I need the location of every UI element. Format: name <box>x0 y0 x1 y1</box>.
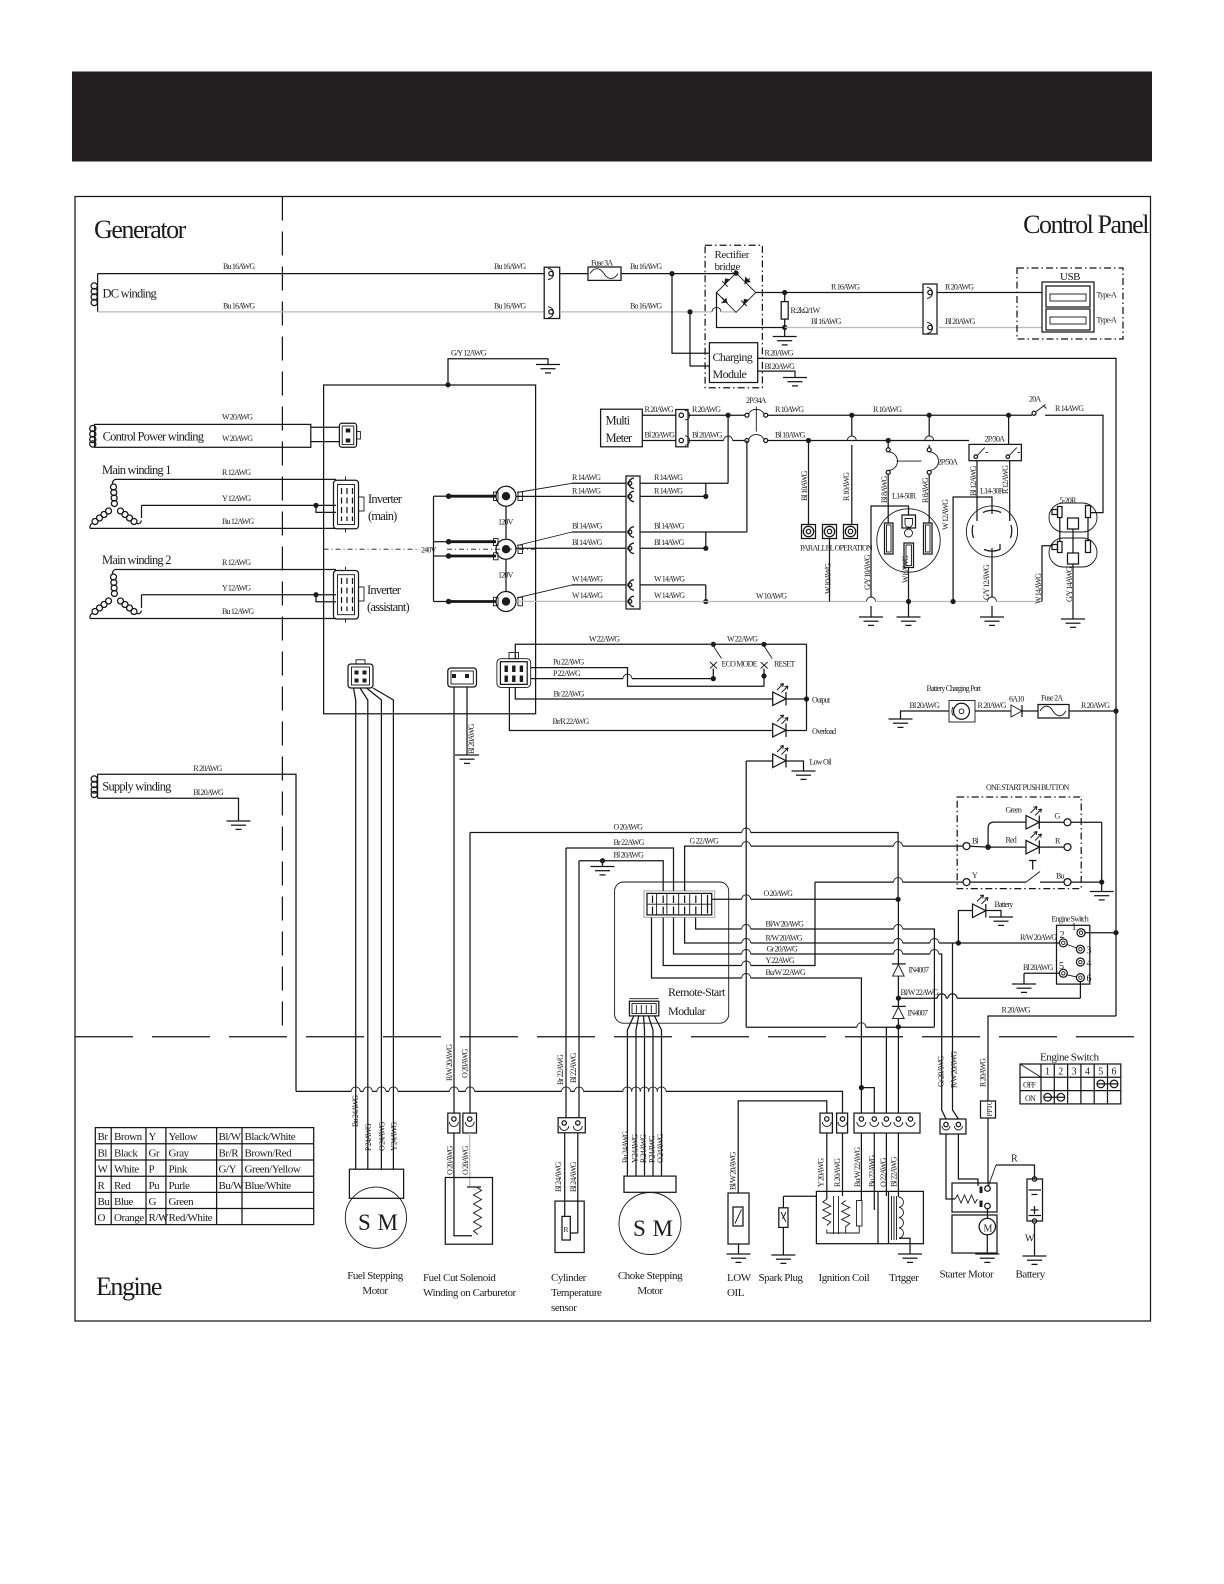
wire R/W 20AWG fuel cut <box>453 687 455 1113</box>
svg-text:2: 2 <box>1060 930 1065 941</box>
svg-text:Bu 16AWG: Bu 16AWG <box>223 302 255 311</box>
wire R 14AWG to S-20R <box>1045 415 1103 512</box>
bridge diamond with 4 diodes <box>717 271 756 313</box>
svg-text:Motor: Motor <box>362 1285 388 1297</box>
svg-text:G/Y 12AWG: G/Y 12AWG <box>982 564 991 600</box>
svg-text:Red: Red <box>1006 836 1017 845</box>
svg-text:Starter Motor: Starter Motor <box>940 1269 995 1281</box>
svg-text:R/W 20AWG: R/W 20AWG <box>445 1044 454 1081</box>
svg-text:Fuse 3A: Fuse 3A <box>591 259 613 268</box>
wire Bu/W 22AWG <box>652 917 875 1113</box>
svg-text:Purle: Purle <box>169 1180 191 1192</box>
wire Bl 22AWG temp sensor <box>578 861 580 1118</box>
wire R 10AWG bus <box>768 414 1032 416</box>
receptacle L14-30R <box>966 487 1017 558</box>
wires right of strip: W pair <box>640 584 706 586</box>
wire O 22AWG down <box>885 1027 887 1113</box>
terminal 120V lower <box>494 592 523 612</box>
svg-text:W 14AWG: W 14AWG <box>572 575 603 584</box>
svg-text:O 24AWG: O 24AWG <box>378 1121 387 1151</box>
svg-text:6: 6 <box>1112 1067 1117 1078</box>
wire R 12AWG to L14-30R <box>1009 461 1011 521</box>
svg-text:(main): (main) <box>368 509 397 523</box>
svg-text:Bl 20AWG: Bl 20AWG <box>692 431 723 440</box>
svg-text:W: W <box>98 1164 109 1176</box>
svg-text:O 20AWG: O 20AWG <box>446 1145 455 1175</box>
wire to charging module pin1 <box>672 274 709 354</box>
svg-text:S M: S M <box>633 1216 674 1241</box>
svg-text:W 10AWG: W 10AWG <box>824 563 833 594</box>
svg-text:L14-50R: L14-50R <box>892 492 917 501</box>
ground below resistor <box>773 328 797 345</box>
choke stepping motor <box>618 1131 683 1297</box>
svg-text:Engine Switch: Engine Switch <box>1040 1052 1100 1064</box>
diode 6A10 <box>975 695 1024 718</box>
terminal 240V middle <box>494 539 523 592</box>
svg-text:LOW: LOW <box>727 1272 752 1284</box>
svg-text:Type-A: Type-A <box>1097 316 1118 325</box>
svg-text:Bl 20AWG: Bl 20AWG <box>193 788 224 797</box>
240V dash-dot divider <box>324 548 420 550</box>
connector display 6-pin <box>497 653 531 688</box>
svg-text:Bu 22AWG: Bu 22AWG <box>868 1155 877 1187</box>
connector control power 2-pin plug <box>339 423 360 447</box>
switch ECO MODE <box>710 642 758 682</box>
wire pin1 to rail <box>1085 932 1116 934</box>
svg-text:Bl 8AWG: Bl 8AWG <box>880 476 889 503</box>
wire Bl 20AWG to USB <box>937 327 1042 329</box>
svg-text:5: 5 <box>1059 961 1064 972</box>
svg-text:Bl 22AWG: Bl 22AWG <box>890 1156 899 1187</box>
main winding 1 three-phase coil <box>90 479 142 528</box>
ground charging module <box>783 378 807 386</box>
svg-text:Bu 16AWG: Bu 16AWG <box>494 262 526 271</box>
svg-text:Y 22AWG: Y 22AWG <box>766 956 795 965</box>
svg-text:Gray: Gray <box>169 1147 190 1159</box>
svg-text:ECO MODE: ECO MODE <box>722 660 758 669</box>
svg-text:2P/30A: 2P/30A <box>985 435 1006 444</box>
wire low-oil vertical <box>745 761 747 1027</box>
wire Bl 20AWG from charging module to ground <box>758 371 795 377</box>
svg-text:Temperature: Temperature <box>551 1287 602 1299</box>
DC winding coil <box>91 274 157 312</box>
svg-text:RESET: RESET <box>774 660 795 669</box>
svg-text:Bu 16AWG: Bu 16AWG <box>223 262 255 271</box>
svg-text:Bu 12AWG: Bu 12AWG <box>222 607 254 616</box>
svg-text:Black/White: Black/White <box>245 1131 296 1143</box>
node resistor bottom <box>782 325 787 330</box>
svg-text:Red/White: Red/White <box>169 1212 213 1224</box>
node Y w2 split <box>313 592 318 597</box>
cylinder temperature sensor <box>551 1118 602 1314</box>
svg-text:IN4007: IN4007 <box>908 1009 928 1018</box>
wire R 20AWG meter out <box>642 414 676 416</box>
svg-text:Bl/W 20AWG: Bl/W 20AWG <box>729 1151 738 1190</box>
svg-text:R 20AWG: R 20AWG <box>945 283 974 292</box>
svg-text:W: W <box>1025 1234 1035 1245</box>
svg-text:G 22AWG: G 22AWG <box>690 837 720 846</box>
connector ignition 5-pin <box>854 1113 920 1133</box>
svg-text:Green: Green <box>169 1196 195 1208</box>
wire R 12AWG w1 <box>115 478 336 480</box>
svg-text:W 20AWG: W 20AWG <box>222 434 253 443</box>
svg-text:R 14AWG: R 14AWG <box>654 487 683 496</box>
svg-text:R 8AWG: R 8AWG <box>921 477 930 503</box>
svg-text:Bl 22AWG: Bl 22AWG <box>569 1052 578 1083</box>
svg-text:Gr: Gr <box>149 1147 160 1159</box>
wire Bl 20AWG with ground <box>579 851 663 891</box>
wire low-oil to Y pin <box>738 1101 827 1193</box>
svg-text:R 14AWG: R 14AWG <box>572 487 601 496</box>
terminal 120V upper <box>494 486 523 538</box>
wire Bu 16AWG top <box>98 273 545 275</box>
node Y w1 split <box>313 503 318 508</box>
wire W 12AWG L14-30R to bus <box>941 497 992 604</box>
svg-text:R 20AWG: R 20AWG <box>193 764 222 773</box>
wire bridge plus output (right vertex) <box>756 292 923 294</box>
wire R 20AWG to rail <box>1069 710 1116 712</box>
svg-text:Bl 20AWG: Bl 20AWG <box>614 851 645 860</box>
svg-text:Br 22AWG: Br 22AWG <box>554 690 585 699</box>
bracket thin link <box>434 496 449 601</box>
svg-text:Main winding 2: Main winding 2 <box>102 553 171 567</box>
svg-text:Bu 24AWG: Bu 24AWG <box>351 1095 360 1127</box>
wire Y 12AWG w1 <box>142 504 337 506</box>
svg-text:W 14AWG: W 14AWG <box>1034 573 1043 604</box>
svg-text:Black: Black <box>114 1147 138 1159</box>
svg-text:Type-A: Type-A <box>1097 291 1118 300</box>
connector DC winding 2-pin <box>544 267 560 318</box>
wire R 20AWG from charging module to right rail <box>758 358 1116 711</box>
svg-text:Output: Output <box>812 696 831 705</box>
svg-text:Control Power winding: Control Power winding <box>103 430 205 444</box>
parallel operation terminals <box>800 525 873 553</box>
LED Output <box>773 644 831 730</box>
svg-text:G/Y 12AWG: G/Y 12AWG <box>451 349 487 358</box>
svg-text:P 24AWG: P 24AWG <box>364 1123 373 1151</box>
wire W 8AWG L14-50R neutral to bus <box>897 555 921 625</box>
svg-text:Bu: Bu <box>98 1196 111 1208</box>
svg-text:R 20AWG: R 20AWG <box>692 405 721 414</box>
wire Bl 16AWG lower output <box>785 327 923 329</box>
connector inverter main 4-pin <box>334 477 365 533</box>
svg-text:Bu: Bu <box>1056 872 1065 881</box>
wires right of strip: Bl pair <box>640 531 747 533</box>
wire Gr 20AWG <box>674 917 947 1119</box>
svg-text:R 10AWG: R 10AWG <box>873 405 902 414</box>
switch RESET <box>761 642 796 687</box>
svg-text:Y 12AWG: Y 12AWG <box>222 584 251 593</box>
svg-text:R 10AWG: R 10AWG <box>842 472 851 501</box>
svg-text:Charging: Charging <box>713 350 753 364</box>
wire to charging module pin2 <box>690 312 709 366</box>
wire Bu 16AWG to bridge <box>621 273 736 275</box>
inverter box <box>324 385 536 714</box>
wire Br 22AWG temp sensor <box>565 848 567 1118</box>
wire G/Y 14AWG 5-20R to ground <box>1061 529 1085 627</box>
svg-text:Winding on Carburetor: Winding on Carburetor <box>423 1287 517 1299</box>
svg-text:6A10: 6A10 <box>1009 695 1024 704</box>
svg-text:Control Panel: Control Panel <box>1023 210 1149 239</box>
connector inverter assistant 4-pin <box>334 567 365 623</box>
svg-text:Motor: Motor <box>637 1285 663 1297</box>
wires right of strip: R pair <box>640 482 728 484</box>
svg-text:R 10AWG: R 10AWG <box>775 405 804 414</box>
svg-text:PPTC: PPTC <box>985 1100 994 1116</box>
svg-text:Bl 20AWG: Bl 20AWG <box>945 317 976 326</box>
svg-text:R 14AWG: R 14AWG <box>1055 404 1084 413</box>
svg-text:R: R <box>98 1180 106 1192</box>
svg-text:5: 5 <box>1098 1067 1103 1078</box>
wire Bl 20AWG supply to ground <box>98 798 239 821</box>
LED Low Oil <box>746 746 832 780</box>
svg-text:Overload: Overload <box>812 727 836 736</box>
connector module lower 5-pin <box>629 999 658 1016</box>
wire R 8AWG down to L14-50R <box>928 474 930 523</box>
svg-text:4: 4 <box>1087 958 1092 969</box>
svg-text:OFF: OFF <box>1023 1081 1037 1090</box>
svg-text:Gr 20AWG: Gr 20AWG <box>937 1055 946 1087</box>
svg-text:3: 3 <box>1072 1067 1077 1078</box>
svg-text:Engine: Engine <box>96 1272 162 1301</box>
svg-text:W 8AWG: W 8AWG <box>901 555 910 583</box>
wire R to battery <box>996 1154 1035 1180</box>
svg-text:R 20AWG: R 20AWG <box>1081 701 1110 710</box>
svg-text:Brown: Brown <box>114 1131 143 1143</box>
nodes on Bl bus <box>806 438 811 443</box>
USB module dash-dot box <box>1017 268 1123 339</box>
svg-text:W 10AWG: W 10AWG <box>756 592 787 601</box>
LOW OIL switch <box>727 1193 752 1299</box>
terminal Y and Bu wire <box>815 822 1114 900</box>
svg-text:240V: 240V <box>421 546 437 555</box>
svg-text:120V: 120V <box>498 571 514 580</box>
connector starter 2-pin <box>940 1119 966 1134</box>
svg-text:Fuse 2A: Fuse 2A <box>1041 694 1063 703</box>
svg-text:Y 12AWG: Y 12AWG <box>222 494 251 503</box>
wire O 20AWG module right pin <box>712 889 901 902</box>
breaker 2P/50A pole1 <box>886 443 897 475</box>
connector fuel stepper 4-pin <box>348 660 373 688</box>
breaker 20A <box>1029 395 1047 416</box>
svg-text:Module: Module <box>713 367 747 381</box>
wire low-oil junction run y1027 <box>746 1023 934 1028</box>
svg-text:Bl: Bl <box>98 1147 108 1159</box>
vertical Bl 10AWG to parallel terminal <box>808 441 810 525</box>
svg-text:Pu 22AWG: Pu 22AWG <box>553 658 585 667</box>
wire R 20AWG supply down to engine <box>98 774 296 1091</box>
svg-text:Bl 20AWG: Bl 20AWG <box>1023 963 1054 972</box>
svg-text:Bl 10AWG: Bl 10AWG <box>800 470 809 501</box>
thick feed wires <box>449 495 496 498</box>
svg-text:Battery Charging Port: Battery Charging Port <box>927 684 982 693</box>
svg-text:ONE START PUSH BUTTON: ONE START PUSH BUTTON <box>986 783 1069 792</box>
svg-text:O 20AWG: O 20AWG <box>461 1048 470 1078</box>
svg-text:Supply winding: Supply winding <box>102 780 172 794</box>
svg-text:W 12AWG: W 12AWG <box>941 499 950 530</box>
svg-text:Y 24AWG: Y 24AWG <box>390 1122 399 1151</box>
svg-text:Bl 24AWG: Bl 24AWG <box>569 1161 578 1192</box>
svg-text:R: R <box>1011 1154 1018 1165</box>
svg-text:Bl/W: Bl/W <box>219 1131 242 1143</box>
wire W 10AWG neutral bus <box>640 592 1042 602</box>
vertical W 10AWG parallel to bus <box>829 539 831 602</box>
svg-text:L14-30R: L14-30R <box>980 487 1005 496</box>
nodes on R bus <box>849 413 854 418</box>
wire Br 22AWG sensor link <box>566 848 674 891</box>
vertical R 10AWG meter-to-pair <box>727 415 729 483</box>
svg-text:Bu 24AWG: Bu 24AWG <box>621 1131 630 1163</box>
wire bridge minus output (left vertex down and right) <box>717 293 785 328</box>
svg-text:6: 6 <box>1087 974 1092 985</box>
svg-text:Bl 20AWG: Bl 20AWG <box>765 362 796 371</box>
svg-text:R/W 20AWG: R/W 20AWG <box>1020 933 1057 942</box>
svg-text:USB: USB <box>1060 271 1080 283</box>
connector outlet strip <box>626 476 640 609</box>
svg-text:Choke Stepping: Choke Stepping <box>618 1270 683 1282</box>
svg-text:S M: S M <box>358 1210 399 1235</box>
remote-start modular box <box>615 882 729 1023</box>
svg-text:Bl/W 20AWG: Bl/W 20AWG <box>766 920 805 929</box>
svg-text:Cylinder: Cylinder <box>551 1272 587 1284</box>
svg-text:Generator: Generator <box>94 215 187 244</box>
connector fuel cut 2-pin <box>448 668 477 687</box>
svg-text:R:2kΩ/1W: R:2kΩ/1W <box>791 306 821 315</box>
wire Bu 12AWG w1 <box>90 527 336 529</box>
wires to relay <box>946 1134 955 1199</box>
svg-text:O 20AWG: O 20AWG <box>764 889 794 898</box>
svg-text:Bl 14AWG: Bl 14AWG <box>654 522 685 531</box>
svg-text:Battery: Battery <box>995 900 1014 909</box>
connector Y 20AWG 1-pin <box>820 1113 832 1133</box>
wire Bo 16AWG to bridge (lower) <box>560 311 712 313</box>
svg-text:Blue: Blue <box>114 1196 134 1208</box>
wire O 20AWG fuel cut <box>469 833 471 1114</box>
rail continues down <box>1115 711 1117 1016</box>
breaker 2P/34A <box>745 396 768 443</box>
svg-text:2P/34A: 2P/34A <box>746 396 767 405</box>
svg-text:20A: 20A <box>1029 395 1041 404</box>
svg-text:W 20AWG: W 20AWG <box>222 413 253 422</box>
svg-text:Bl 10AWG: Bl 10AWG <box>775 431 806 440</box>
svg-text:R 14AWG: R 14AWG <box>572 473 601 482</box>
svg-text:Remote-Start: Remote-Start <box>668 985 726 999</box>
svg-text:4: 4 <box>1085 1067 1090 1078</box>
node resistor top <box>782 290 787 295</box>
svg-text:Main winding 1: Main winding 1 <box>102 463 171 477</box>
svg-text:Yellow: Yellow <box>169 1131 198 1143</box>
svg-text:Pink: Pink <box>169 1164 188 1176</box>
node on top wire feeding charging module <box>669 271 674 276</box>
wire Bl 8AWG down to L14-50R <box>887 474 889 523</box>
svg-text:Br/R 22AWG: Br/R 22AWG <box>553 717 590 726</box>
svg-text:R 20AWG: R 20AWG <box>1002 1006 1031 1015</box>
svg-text:W 22AWG: W 22AWG <box>589 635 620 644</box>
wire Bu 12AWG w2 <box>90 618 336 620</box>
resistor R:2kΩ/1W <box>781 293 820 328</box>
svg-text:Y: Y <box>149 1131 157 1143</box>
svg-text:R: R <box>564 1225 569 1234</box>
svg-text:Fuel Cut Solenoid: Fuel Cut Solenoid <box>423 1272 496 1284</box>
svg-text:2: 2 <box>1058 1067 1063 1078</box>
svg-text:Orange: Orange <box>114 1212 144 1224</box>
ground supply winding <box>227 821 251 829</box>
rectifier bridge dash-dot box <box>705 245 762 388</box>
dashed divider engine section <box>75 1036 1151 1038</box>
svg-text:IN4007: IN4007 <box>909 966 929 975</box>
wire pin6 link (light) <box>898 994 1080 999</box>
svg-text:(assistant): (assistant) <box>367 600 410 614</box>
svg-text:O 20AWG: O 20AWG <box>461 1145 470 1175</box>
connector USB feed 2-pin <box>923 284 937 334</box>
svg-text:Gr 20AWG: Gr 20AWG <box>767 945 799 954</box>
svg-text:Bl 20AWG: Bl 20AWG <box>910 701 941 710</box>
diode D1 IN4007 <box>892 899 929 976</box>
svg-text:Engine Switch: Engine Switch <box>1052 915 1089 924</box>
svg-text:Bl 12AWG: Bl 12AWG <box>969 465 978 496</box>
wire R 20AWG supply-to-ignition with hops <box>296 1087 843 1113</box>
wire R 20AWG to USB <box>937 292 1042 294</box>
svg-text:3: 3 <box>1087 946 1092 957</box>
svg-text:Bu/W 22AWG: Bu/W 22AWG <box>766 968 806 977</box>
fuel cut solenoid <box>423 1133 517 1299</box>
svg-text:Multi: Multi <box>606 414 631 428</box>
svg-text:Br/R: Br/R <box>219 1147 240 1159</box>
terminal Bl <box>963 843 970 850</box>
wire Bl 20AWG port ground <box>889 701 950 727</box>
svg-text:R/W 20AWG: R/W 20AWG <box>950 1051 959 1088</box>
trigger <box>889 1196 922 1284</box>
wire Bl 20AWG fuel cut ground <box>455 687 479 763</box>
svg-text:Green/Yellow: Green/Yellow <box>245 1164 301 1176</box>
svg-text:R 12AWG: R 12AWG <box>222 468 251 477</box>
svg-text:Green: Green <box>1006 806 1022 815</box>
svg-text:W 14AWG: W 14AWG <box>572 591 603 600</box>
vertical R 10AWG to parallel terminal (hop over Bl bus) <box>847 415 856 524</box>
svg-text:G/Y: G/Y <box>219 1164 237 1176</box>
fuse F1 Fuse 3A <box>560 259 621 281</box>
svg-text:ON: ON <box>1025 1094 1036 1103</box>
spark plug <box>759 1196 817 1284</box>
svg-text:Y 20AWG: Y 20AWG <box>817 1158 826 1187</box>
svg-text:R 20AWG: R 20AWG <box>765 349 794 358</box>
wire W 14AWG 5-20R to bus <box>1034 546 1052 604</box>
wire R 12AWG w2 <box>115 569 336 571</box>
svg-text:P: P <box>149 1164 155 1176</box>
svg-text:Bl 14AWG: Bl 14AWG <box>572 538 603 547</box>
svg-text:Bl 20AWG: Bl 20AWG <box>467 723 476 754</box>
svg-text:R 12AWG: R 12AWG <box>222 558 251 567</box>
diode D2 IN4007 <box>892 1006 928 1113</box>
wire Bl 20AWG meter out <box>642 440 676 442</box>
wire G/Y 10AWG L14-50R shell to ground <box>859 506 909 625</box>
svg-text:Battery: Battery <box>1016 1269 1046 1281</box>
svg-text:R 20AWG: R 20AWG <box>833 1158 842 1187</box>
connector fuel cut pin A <box>448 1113 460 1133</box>
svg-text:Fuel Stepping: Fuel Stepping <box>347 1270 404 1282</box>
svg-text:OIL: OIL <box>727 1287 745 1299</box>
wire W 14AWG pair <box>572 584 626 586</box>
svg-text:Bl/W 22AWG: Bl/W 22AWG <box>901 988 940 997</box>
wire R 20AWG to PPTC <box>979 1006 1117 1102</box>
svg-text:1: 1 <box>1045 1067 1050 1078</box>
connector fuel cut pin B <box>463 1113 477 1133</box>
svg-text:Bl 20AWG: Bl 20AWG <box>645 431 676 440</box>
wire P 22AWG (hop over Pu) <box>531 669 714 679</box>
node on bottom wire feeding charging module <box>687 309 692 314</box>
svg-text:PARALLEL OPERATION: PARALLEL OPERATION <box>800 544 873 553</box>
svg-text:Bl 24AWG: Bl 24AWG <box>554 1161 563 1192</box>
